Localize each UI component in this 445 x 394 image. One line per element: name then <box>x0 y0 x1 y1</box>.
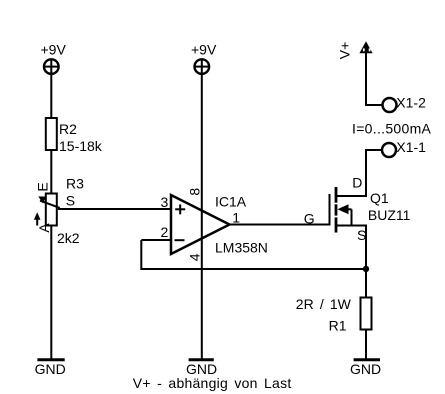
svg-text:LM358N: LM358N <box>215 240 268 256</box>
transistor Q1 drain lead <box>336 150 383 196</box>
svg-text:R1: R1 <box>329 317 347 333</box>
svg-text:X1-1: X1-1 <box>396 139 426 155</box>
resistor R1 <box>361 298 372 330</box>
ground left <box>37 358 64 361</box>
supply symbol V+ <box>359 41 372 53</box>
svg-text:GND: GND <box>35 361 66 377</box>
transistor Q1 channel <box>335 187 338 233</box>
svg-text:2R / 1W: 2R / 1W <box>296 296 352 312</box>
wire +9V middle through op-amp to GND <box>201 74 203 360</box>
svg-text:E: E <box>35 182 51 191</box>
potentiometer R3 wiper arrow <box>38 196 60 208</box>
potentiometer direction arrow <box>34 212 41 225</box>
svg-text:R3: R3 <box>66 176 84 192</box>
wire pot wiper to op-amp pin 3 <box>58 208 171 210</box>
op-amp IC1A <box>171 195 230 254</box>
connector X1-2 <box>383 98 397 112</box>
svg-text:X1-2: X1-2 <box>396 95 426 111</box>
svg-text:GND: GND <box>350 361 381 377</box>
wire +9V to R2 <box>50 74 52 118</box>
svg-text:A: A <box>36 223 52 233</box>
op-amp minus sign <box>175 239 185 241</box>
svg-text:R2: R2 <box>59 121 77 137</box>
svg-text:D: D <box>352 175 362 191</box>
svg-text:+9V: +9V <box>41 42 67 58</box>
resistor R2 <box>46 118 57 150</box>
wire V+ to X1-2 <box>366 53 383 105</box>
svg-text:IC1A: IC1A <box>215 193 247 209</box>
svg-text:1: 1 <box>232 209 240 225</box>
transistor Q1 source lead <box>336 226 366 298</box>
wire op-amp output to gate <box>230 224 330 226</box>
svg-text:+9V: +9V <box>191 42 217 58</box>
svg-text:S: S <box>66 193 75 209</box>
svg-text:S: S <box>357 227 366 243</box>
svg-text:2k2: 2k2 <box>57 230 80 246</box>
connector X1-1 <box>382 143 396 157</box>
ground right <box>354 358 380 361</box>
svg-text:G: G <box>304 211 315 227</box>
transistor Q1 gate bar <box>329 194 331 226</box>
supply symbol +9V middle <box>195 59 210 74</box>
potentiometer R3 body <box>46 194 57 226</box>
svg-text:2: 2 <box>161 224 169 240</box>
svg-text:I=0...500mA: I=0...500mA <box>352 121 432 137</box>
wire R2 to R3 <box>50 150 52 194</box>
svg-text:V+ - abhängig von Last: V+ - abhängig von Last <box>133 375 292 391</box>
svg-text:V+: V+ <box>336 42 352 60</box>
wire R3 to GND <box>50 226 52 360</box>
wire op-amp pin 2 stub <box>141 239 171 241</box>
svg-text:BUZ11: BUZ11 <box>368 207 411 223</box>
wire R1 to GND <box>365 330 367 360</box>
node source junction <box>363 266 369 272</box>
op-amp plus sign <box>175 204 185 214</box>
transistor Q1 bulk arrow <box>338 204 352 225</box>
svg-text:8: 8 <box>186 188 202 196</box>
wire feedback pin2 to source node <box>141 240 366 269</box>
svg-text:4: 4 <box>186 253 202 261</box>
svg-text:3: 3 <box>161 194 169 210</box>
ground middle <box>189 358 214 361</box>
supply symbol +9V left <box>44 59 59 74</box>
svg-text:15-18k: 15-18k <box>59 138 103 154</box>
svg-text:Q1: Q1 <box>370 190 389 206</box>
